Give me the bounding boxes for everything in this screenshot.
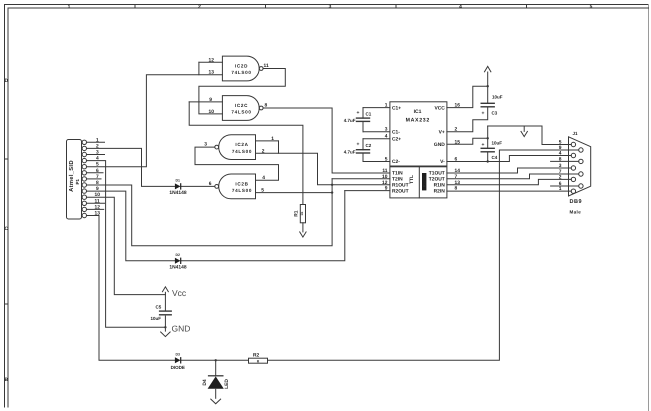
svg-text:5: 5 — [385, 157, 388, 163]
DB9 pin6 stub (n.c.) — [551, 185, 579, 187]
svg-text:C: C — [5, 226, 9, 232]
svg-text:1: 1 — [271, 136, 274, 142]
wire P1 pin13 to diode D3 (bottom rail) — [87, 216, 175, 361]
IC2A input 2 wire to R1OUT net riser — [256, 153, 390, 185]
svg-text:+: + — [482, 142, 485, 148]
DB9 pin circles right column 9,8,7,6 — [579, 148, 583, 188]
capacitor C2 — [357, 139, 370, 162]
connector P1 pin circles 1-13 — [82, 140, 86, 218]
IC2B input 5 wire to T2IN riser — [256, 192, 333, 194]
svg-text:C2+: C2+ — [392, 136, 401, 142]
svg-text:8: 8 — [455, 186, 458, 192]
svg-text:12: 12 — [95, 204, 101, 210]
NAND gate IC2C body — [222, 96, 263, 121]
junction VCC at C3 riser — [487, 85, 489, 87]
wire R1 to ground — [302, 223, 304, 232]
wire C2+ pin4 — [363, 138, 390, 140]
frame column labels — [68, 4, 593, 10]
frame row ticks — [5, 159, 9, 304]
MAX232 RS232 section label (inverse, rotated) — [422, 173, 426, 190]
svg-text:C2-: C2- — [392, 159, 400, 165]
IC2A input tie bracket (1-2) — [278, 141, 280, 153]
MAX232 IC1 lower box (TTL/RS232 section) — [390, 167, 447, 198]
junction GND rail at C5 — [164, 326, 166, 328]
svg-text:10: 10 — [209, 109, 215, 115]
IC2D input tie bracket (12-13) — [198, 62, 200, 74]
resistor R1 — [300, 205, 305, 223]
svg-text:4: 4 — [385, 134, 388, 140]
VCC power symbol above C3 — [485, 66, 491, 103]
svg-text:VCC: VCC — [434, 105, 445, 111]
svg-text:9: 9 — [96, 186, 99, 192]
svg-text:1k: 1k — [300, 212, 304, 216]
connector P1 Atmel_SID body — [67, 140, 82, 220]
svg-text:IC2A: IC2A — [235, 142, 248, 147]
svg-text:74LS00: 74LS00 — [231, 70, 251, 75]
IC2D output 11 loop to IC2C input 10 — [199, 69, 285, 114]
svg-text:12: 12 — [382, 180, 388, 186]
wire P1 pin8 to MAX232 T2IN rail — [87, 179, 333, 246]
svg-text:T1OUT: T1OUT — [429, 171, 445, 177]
svg-text:5: 5 — [559, 140, 562, 146]
svg-text:7: 7 — [455, 174, 458, 180]
svg-text:4: 4 — [262, 175, 265, 181]
svg-text:2: 2 — [198, 4, 201, 10]
wire P1 pin10 to Vcc node — [87, 197, 166, 294]
svg-text:8: 8 — [96, 180, 99, 186]
svg-text:10: 10 — [95, 192, 101, 198]
svg-text:2: 2 — [262, 148, 265, 154]
ground symbol below LED — [210, 399, 221, 404]
svg-text:Vcc: Vcc — [172, 288, 187, 298]
svg-text:3: 3 — [385, 127, 388, 133]
diode D2 1N4148 — [175, 258, 181, 264]
svg-text:13: 13 — [209, 70, 215, 76]
svg-text:T2OUT: T2OUT — [429, 177, 445, 183]
svg-text:J1: J1 — [573, 131, 579, 136]
svg-text:IC2C: IC2C — [235, 103, 248, 108]
svg-text:R1OUT: R1OUT — [392, 183, 409, 189]
wire D3 cathode to resistor R2 — [181, 359, 249, 361]
svg-text:6: 6 — [96, 168, 99, 174]
ground symbol below C5 — [160, 332, 170, 337]
diode D3 DIODE (bottom rail) — [175, 357, 181, 363]
svg-text:74LS00: 74LS00 — [231, 110, 251, 115]
svg-text:1: 1 — [96, 137, 99, 143]
svg-text:+: + — [356, 142, 359, 148]
svg-text:R2: R2 — [253, 353, 260, 359]
DB9 pin circles left column 5,4,3,2,1 — [571, 142, 575, 193]
svg-text:RS232: RS232 — [422, 176, 426, 187]
junction bottom rail at LED — [215, 359, 217, 361]
svg-text:14: 14 — [455, 168, 461, 174]
svg-text:6: 6 — [209, 181, 212, 187]
svg-text:10: 10 — [382, 174, 388, 180]
Vcc power symbol — [162, 287, 168, 295]
P1 pin 3 stub — [87, 154, 105, 156]
IC2D input 12 stub — [199, 61, 223, 63]
capacitor C1 — [357, 108, 370, 132]
svg-text:V-: V- — [440, 159, 445, 165]
svg-text:D1: D1 — [175, 179, 180, 183]
svg-text:R1: R1 — [294, 210, 300, 217]
op-amp-style NAND gate IC2D body — [222, 56, 263, 81]
resistor R2 — [249, 358, 268, 363]
IC2A input 1 stub — [256, 140, 279, 142]
svg-text:12: 12 — [209, 57, 215, 63]
NAND gate IC2B body (mirrored) — [215, 174, 256, 199]
svg-text:11: 11 — [382, 168, 387, 174]
wire R1IN pin13 to DB9 pin2 — [447, 179, 571, 184]
svg-text:C1+: C1+ — [392, 105, 401, 111]
svg-text:+: + — [356, 110, 359, 116]
svg-text:9: 9 — [209, 97, 212, 103]
wire P1 pin5 to IC2D input 13 — [87, 75, 223, 167]
MAX232 pin number labels left — [382, 103, 388, 192]
ground symbol on DB9 GND net — [521, 126, 527, 137]
svg-text:1N4148: 1N4148 — [169, 265, 186, 271]
svg-text:T2IN: T2IN — [392, 177, 403, 183]
svg-text:15: 15 — [455, 139, 461, 145]
svg-text:DB9: DB9 — [570, 199, 583, 205]
svg-text:MAX232: MAX232 — [406, 118, 430, 124]
frame row labels — [5, 78, 9, 383]
svg-text:R2IN: R2IN — [434, 188, 446, 194]
svg-text:9: 9 — [559, 145, 562, 151]
capacitor C3 — [481, 103, 494, 107]
svg-text:74LS00: 74LS00 — [232, 188, 252, 193]
svg-text:13: 13 — [455, 180, 461, 186]
IC2C input 9 wire — [189, 101, 222, 103]
DB9 pin number labels — [559, 140, 562, 193]
svg-text:R1IN: R1IN — [434, 183, 446, 189]
svg-text:C3: C3 — [492, 110, 498, 115]
svg-text:V+: V+ — [439, 129, 445, 135]
MAX232 pin name labels right — [429, 105, 445, 194]
svg-text:6: 6 — [559, 181, 562, 187]
svg-text:7: 7 — [559, 169, 562, 175]
svg-text:10uF: 10uF — [151, 316, 162, 321]
wire D2 cathode to MAX232 R2OUT — [181, 191, 345, 261]
DB9 connector J1 body — [569, 137, 591, 196]
junction IC2B input5 at T2IN riser — [331, 191, 333, 193]
svg-text:3: 3 — [559, 163, 562, 169]
wire GND pin15 to C4 riser — [447, 138, 488, 144]
svg-text:5: 5 — [96, 162, 99, 168]
svg-text:Male: Male — [570, 210, 582, 215]
wire P1 pin4 to GND node — [87, 161, 166, 328]
svg-text:8: 8 — [265, 103, 268, 109]
wire P1 pin2 to diode D1 / IC2B output — [87, 148, 175, 186]
wire D1 cathode to IC2B output bubble — [181, 185, 215, 187]
junction R1OUT net at T2IN riser — [331, 184, 333, 186]
svg-text:4: 4 — [96, 156, 99, 162]
wire P1 pin9 to diode D2 — [87, 191, 175, 261]
svg-text:10uF: 10uF — [492, 141, 503, 146]
MAX232 R2OUT pin9 wire — [345, 190, 390, 192]
IC2C output 8 to MAX232 T1IN — [263, 108, 390, 173]
svg-text:5: 5 — [590, 4, 593, 10]
wire R2 to DB9 pin 9 riser — [268, 150, 579, 360]
svg-text:GND: GND — [434, 142, 445, 148]
svg-text:3: 3 — [204, 142, 207, 148]
svg-text:2: 2 — [455, 127, 458, 133]
MAX232 T2IN wire — [332, 178, 390, 180]
svg-text:1: 1 — [559, 186, 562, 192]
MAX232 lower box divider — [418, 167, 420, 198]
svg-text:LED: LED — [224, 379, 230, 389]
diode D1 1N4148 — [175, 183, 181, 189]
wire R2IN pin8 to DB9 pin1 — [447, 190, 571, 192]
capacitor C4 — [481, 126, 494, 162]
wire T1OUT pin14 to DB9 pin3 — [447, 168, 571, 173]
wire C2- pin5 — [363, 161, 390, 163]
svg-text:7: 7 — [96, 174, 99, 180]
svg-text:2: 2 — [96, 143, 99, 149]
svg-text:D3: D3 — [175, 352, 180, 356]
wire VCC pin16 to C3 top — [447, 86, 488, 107]
svg-text:16: 16 — [455, 103, 461, 109]
svg-text:3: 3 — [96, 150, 99, 156]
svg-text:4.7uF: 4.7uF — [344, 149, 356, 154]
wire GND net to DB9 pin5 — [488, 126, 572, 145]
svg-text:Atmel_SID: Atmel_SID — [68, 160, 75, 192]
svg-text:13: 13 — [95, 211, 101, 217]
svg-text:C4: C4 — [492, 155, 498, 160]
LED D4 — [208, 360, 224, 399]
svg-text:2: 2 — [559, 174, 562, 180]
svg-text:1: 1 — [68, 4, 71, 10]
svg-text:74LS00: 74LS00 — [232, 149, 252, 154]
P1 pin 12 stub — [87, 208, 104, 210]
svg-text:T1IN: T1IN — [392, 171, 403, 177]
svg-text:P1: P1 — [75, 178, 80, 184]
svg-text:3: 3 — [329, 4, 332, 10]
wire C3 bottom to V+ pin2 — [447, 108, 488, 132]
wire C1- pin3 — [363, 131, 390, 133]
P1 pin 1 stub — [87, 141, 105, 143]
svg-text:11: 11 — [264, 63, 269, 69]
svg-text:C1-: C1- — [392, 129, 400, 135]
svg-text:IC2D: IC2D — [235, 64, 248, 69]
svg-text:5: 5 — [261, 188, 264, 194]
svg-text:C5: C5 — [156, 305, 162, 310]
IC2A output 3 to IC2B input 4 — [195, 147, 279, 180]
svg-text:4: 4 — [559, 151, 562, 157]
MAX232 pin number labels right — [455, 103, 461, 192]
svg-text:8: 8 — [559, 156, 562, 162]
svg-text:GND: GND — [172, 324, 191, 334]
ground symbol below R1 — [300, 232, 306, 237]
P1 pin 7 stub — [87, 178, 102, 180]
svg-text:4.7uF: 4.7uF — [344, 118, 356, 123]
P1 pin number labels — [95, 137, 101, 216]
svg-text:D: D — [5, 78, 9, 84]
wire C1+ pin1 — [363, 107, 390, 109]
svg-text:D4: D4 — [202, 379, 208, 386]
svg-text:TTL: TTL — [409, 175, 415, 184]
P1 pin 11 stub — [87, 202, 105, 204]
svg-text:B: B — [5, 377, 9, 383]
wire IC2C input 9 to resistor R1 — [189, 102, 303, 205]
svg-text:C2: C2 — [366, 143, 372, 148]
svg-text:IC1: IC1 — [414, 109, 422, 115]
capacitor C5 — [159, 295, 172, 332]
svg-text:D2: D2 — [175, 253, 180, 257]
svg-text:11: 11 — [95, 198, 100, 204]
svg-text:9: 9 — [385, 186, 388, 192]
wire T2OUT pin7 to DB9 pin7 — [447, 174, 579, 179]
svg-text:6: 6 — [455, 157, 458, 163]
frame column ticks — [135, 5, 527, 9]
svg-text:1: 1 — [385, 103, 388, 109]
svg-text:DIODE: DIODE — [171, 365, 185, 370]
svg-text:4: 4 — [459, 4, 462, 10]
junction C4 bottom at V- wire — [487, 160, 489, 162]
svg-text:R2OUT: R2OUT — [392, 188, 409, 194]
svg-text:10uF: 10uF — [492, 95, 503, 100]
svg-text:IC2B: IC2B — [235, 182, 248, 187]
P1 pin 6 stub — [87, 172, 104, 174]
op-amp U.. MAX232 IC1 upper box — [390, 102, 447, 166]
svg-text:+: + — [482, 110, 485, 116]
NAND gate IC2A body (mirrored) — [215, 135, 256, 160]
svg-text:1N4148: 1N4148 — [169, 190, 186, 196]
MAX232 pin name labels left — [392, 105, 409, 194]
DB9 pin8 stub (n.c.) — [551, 160, 579, 162]
svg-text:C1: C1 — [366, 111, 372, 116]
junction GND15 at C4 riser — [487, 137, 489, 139]
wire V- pin6 to DB9 pin4 — [447, 156, 571, 162]
